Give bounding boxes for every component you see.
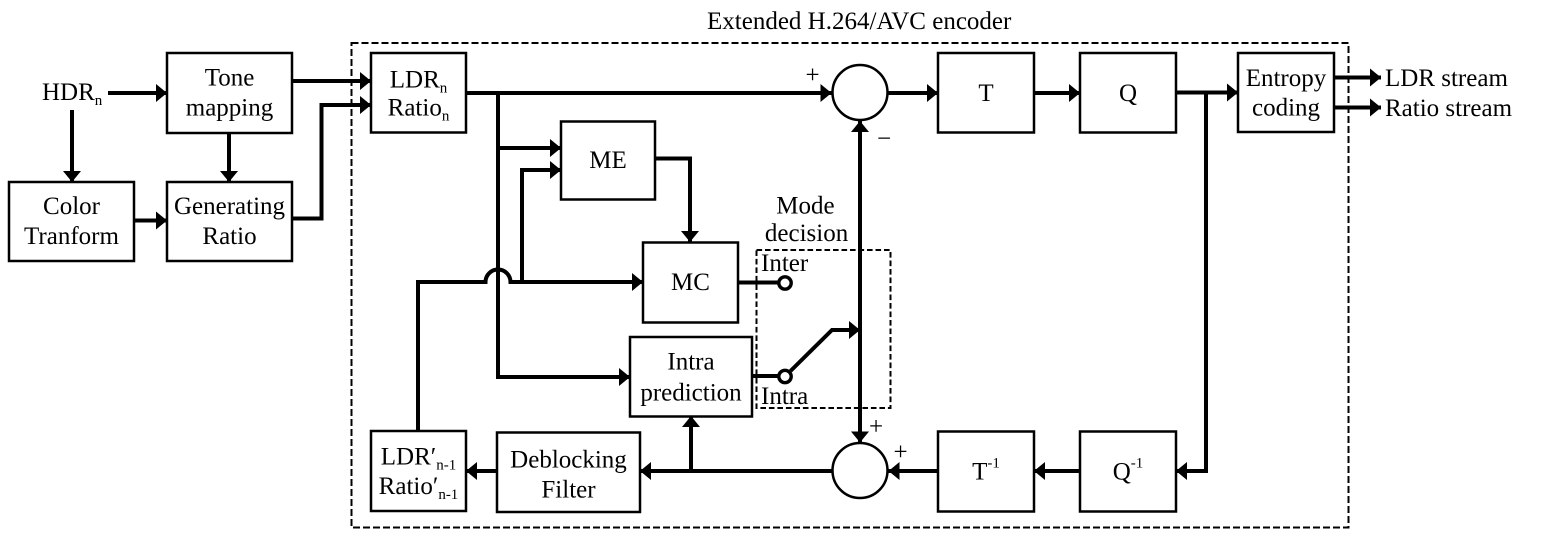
svg-text:Ratio: Ratio	[202, 223, 256, 250]
svg-text:Extended H.264/AVC encoder: Extended H.264/AVC encoder	[707, 8, 1012, 35]
svg-text:Inter: Inter	[761, 250, 809, 277]
svg-text:Entropy: Entropy	[1246, 65, 1327, 92]
svg-text:+: +	[869, 414, 883, 441]
svg-text:mapping: mapping	[186, 95, 274, 122]
svg-text:prediction: prediction	[640, 379, 742, 406]
svg-text:MC: MC	[671, 269, 710, 296]
svg-text:Intra: Intra	[667, 349, 714, 376]
svg-text:Deblocking: Deblocking	[510, 447, 627, 474]
svg-text:LDRn: LDRn	[390, 67, 448, 97]
svg-text:Ration: Ration	[388, 95, 450, 125]
svg-text:Ratio stream: Ratio stream	[1385, 95, 1513, 122]
svg-text:decision: decision	[765, 220, 849, 247]
svg-text:+: +	[893, 439, 907, 466]
svg-text:Generating: Generating	[174, 193, 286, 220]
svg-text:Tranform: Tranform	[24, 223, 119, 250]
svg-text:HDRn: HDRn	[42, 79, 103, 109]
svg-text:Filter: Filter	[541, 477, 596, 504]
svg-text:Intra: Intra	[761, 383, 808, 410]
svg-text:Q: Q	[1119, 80, 1137, 107]
svg-text:ME: ME	[589, 147, 627, 174]
svg-text:T: T	[978, 80, 993, 107]
svg-text:Mode: Mode	[776, 193, 834, 220]
svg-text:coding: coding	[1252, 95, 1321, 122]
svg-text:+: +	[805, 62, 819, 89]
svg-text:Color: Color	[43, 193, 101, 220]
svg-text:LDR stream: LDR stream	[1385, 65, 1508, 92]
svg-text:−: −	[877, 126, 891, 153]
svg-text:Tone: Tone	[205, 65, 255, 92]
